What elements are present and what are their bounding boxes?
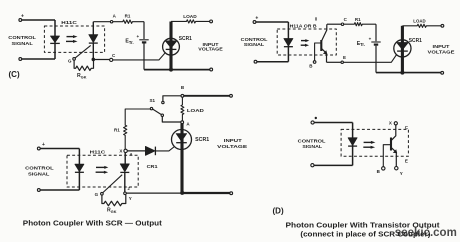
pin 1 tick mark [315, 17, 317, 20]
light coupling arrow upper [364, 141, 376, 144]
terminal input voltage top [210, 20, 213, 23]
svg-text:SIGNAL: SIGNAL [28, 171, 49, 177]
svg-text:R1: R1 [355, 17, 361, 22]
svg-text:VOLTAGE: VOLTAGE [428, 49, 456, 55]
resistor R1 [113, 20, 144, 23]
terminal control + [311, 121, 314, 124]
H11A package dashed box [277, 29, 336, 55]
battery ETr [139, 40, 148, 43]
wire CR1 to SCR1 gate [155, 147, 174, 151]
terminal input voltage bottom [210, 68, 213, 71]
wire control+ to LED anode [40, 148, 79, 150]
node C terminal [110, 58, 113, 61]
svg-text:Photon Coupler With SCR — Outp: Photon Coupler With SCR — Output [23, 218, 163, 227]
LED (H11C emitter diode) [50, 20, 60, 59]
SCR1 [394, 26, 411, 73]
wire R1 down to battery [375, 24, 377, 41]
bottom rail wire [144, 69, 210, 71]
terminal control - [311, 164, 314, 167]
svg-text:SIGNAL: SIGNAL [244, 42, 264, 48]
label INPUT VOLTAGE [198, 42, 223, 52]
wire emitter to node E [327, 61, 341, 63]
node A terminal [110, 21, 112, 23]
wire junction to node C [93, 59, 109, 61]
label CONTROL SIGNAL [241, 37, 268, 48]
svg-text:+: + [369, 36, 372, 41]
bottom rail wire [376, 72, 441, 74]
node E terminal [341, 61, 343, 63]
light coupling arrow upper [96, 166, 108, 169]
resistor R1 [344, 23, 376, 26]
battery ETr [371, 42, 380, 45]
svg-text:CR1: CR1 [147, 164, 158, 170]
svg-text:+: + [136, 34, 139, 39]
wire battery to bottom rail [143, 44, 145, 70]
light coupling arrow upper [301, 39, 309, 42]
label CONTROL SIGNAL [298, 138, 326, 150]
bottom rail wire (thick) [182, 192, 230, 194]
terminal input voltage top [441, 24, 444, 27]
LED (H11C emitter diode) [75, 149, 84, 191]
light coupling arrow upper [67, 35, 78, 38]
resistor RGK [102, 195, 126, 206]
phototransistor [391, 125, 397, 166]
svg-text:R1: R1 [125, 14, 131, 19]
wire node C to SCR1 gate [113, 53, 166, 60]
wire node Y to rail [126, 192, 181, 194]
resistor LOAD (top) [402, 24, 440, 27]
svg-text:G: G [68, 58, 72, 63]
svg-text:R1: R1 [114, 128, 120, 133]
node C terminal [341, 23, 343, 25]
svg-text:E: E [343, 55, 346, 60]
H11C package dashed box [67, 155, 138, 187]
svg-text:A: A [130, 153, 133, 157]
node X terminal [394, 122, 397, 125]
package dashed box [341, 129, 408, 156]
svg-text:H11C: H11C [90, 150, 106, 156]
light coupling arrow lower [363, 146, 375, 149]
terminal control - [254, 60, 257, 63]
svg-text:seekic.com: seekic.com [395, 225, 457, 239]
light coupling arrow lower [96, 171, 109, 174]
photo-SCR of H11C [75, 22, 98, 60]
LED (emitter diode) [348, 123, 357, 166]
resistor LOAD (top) [171, 20, 210, 23]
wire R1 down to battery [143, 22, 145, 39]
terminal control + [253, 21, 256, 24]
svg-text:Y: Y [129, 196, 132, 201]
node Y terminal [395, 167, 398, 170]
SCR1 [163, 22, 180, 70]
wire node B to input terminal [184, 95, 230, 97]
photo-SCR of H11C [103, 153, 129, 193]
terminal control - [37, 189, 40, 192]
wire control- to LED cathode [22, 58, 55, 60]
node B terminal [313, 61, 316, 64]
wire control- to LED cathode [257, 61, 288, 63]
terminal control - (bottom-left) [19, 58, 22, 61]
wire S1 upper contact to node B [163, 96, 181, 101]
wire control- to LED cathode [314, 164, 353, 166]
svg-text:(C): (C) [9, 70, 20, 79]
resistor R1 (vertical) [124, 109, 151, 149]
wire collector to node C [327, 23, 341, 25]
svg-text:VOLTAGE: VOLTAGE [217, 144, 248, 150]
light coupling arrow lower [66, 40, 78, 43]
svg-text:+: + [21, 13, 24, 19]
svg-text:ETr.: ETr. [357, 41, 365, 47]
svg-text:INPUT: INPUT [224, 138, 242, 144]
svg-text:SCR1: SCR1 [409, 38, 422, 44]
svg-text:CONTROL: CONTROL [241, 37, 268, 43]
node G terminal [101, 192, 104, 195]
svg-text:Y: Y [400, 171, 403, 176]
svg-text:LOAD: LOAD [183, 14, 197, 20]
svg-text:X: X [119, 149, 122, 154]
wire control+ to LED anode [256, 21, 288, 23]
LED (H11A emitter diode) [284, 22, 293, 62]
H11C package dashed box [44, 26, 104, 52]
label INPUT VOLTAGE [217, 138, 248, 150]
terminal control + [37, 147, 40, 150]
junction cathode/RGK/node C [92, 58, 96, 62]
junction SCR1 cathode / rail [180, 191, 184, 195]
svg-text:ETr.: ETr. [125, 39, 133, 45]
svg-text:SIGNAL: SIGNAL [12, 41, 33, 47]
control signal + polarity mark [315, 117, 317, 119]
node Y terminal [124, 192, 127, 195]
wire control+ to LED anode [314, 122, 352, 124]
switch S1 [150, 101, 164, 116]
svg-text:LOAD: LOAD [413, 18, 426, 24]
terminal control + (top-left) [19, 19, 22, 22]
svg-text:E: E [405, 158, 408, 163]
svg-text:SCR1: SCR1 [195, 137, 209, 143]
light coupling arrow lower [301, 44, 309, 47]
svg-text:H11C: H11C [61, 20, 77, 26]
label INPUT VOLTAGE [428, 44, 456, 55]
phototransistor of H11A [321, 24, 327, 62]
junction SCR1 cathode / rail [169, 68, 173, 72]
wire base to node B [315, 43, 322, 61]
wire SCR anode to node A [93, 21, 110, 23]
svg-text:(D): (D) [273, 207, 284, 216]
diode CR1 [127, 146, 155, 155]
wire base to node B [383, 145, 391, 167]
node X terminal [124, 149, 127, 152]
wire battery to bottom rail [375, 46, 377, 73]
svg-text:CONTROL: CONTROL [298, 138, 326, 144]
terminal input voltage top [230, 94, 233, 97]
svg-text:G: G [95, 192, 99, 197]
node G terminal [73, 58, 76, 61]
junction SCR1 cathode / rail [400, 71, 404, 75]
svg-text:INPUT: INPUT [433, 44, 450, 50]
wire control- to LED cathode [40, 189, 79, 191]
resistor RGK [74, 59, 93, 70]
resistor LOAD (vertical) [181, 97, 184, 121]
svg-text:SCR1: SCR1 [179, 36, 192, 42]
svg-text:CONTROL: CONTROL [8, 35, 36, 41]
svg-text:X: X [389, 121, 392, 126]
label CONTROL SIGNAL [8, 35, 36, 47]
svg-text:+: + [42, 142, 45, 148]
node B terminal [382, 167, 385, 170]
svg-text:VOLTAGE: VOLTAGE [198, 46, 223, 52]
SCR1 [172, 124, 192, 193]
svg-text:H11A OR B: H11A OR B [290, 24, 318, 30]
terminal input voltage bottom [441, 71, 444, 74]
wire node E to SCR1 gate [343, 55, 396, 63]
svg-text:CONTROL: CONTROL [25, 166, 54, 172]
svg-text:S1: S1 [150, 98, 156, 103]
terminal input voltage bottom [230, 192, 233, 195]
svg-text:LOAD: LOAD [187, 108, 205, 114]
node A junction [181, 121, 184, 124]
label CONTROL SIGNAL [25, 166, 54, 178]
node B terminal [181, 94, 184, 97]
svg-text:SIGNAL: SIGNAL [302, 144, 322, 150]
wire S1 lower contact to node A [162, 117, 180, 122]
wire control+ to LED anode [22, 19, 55, 21]
